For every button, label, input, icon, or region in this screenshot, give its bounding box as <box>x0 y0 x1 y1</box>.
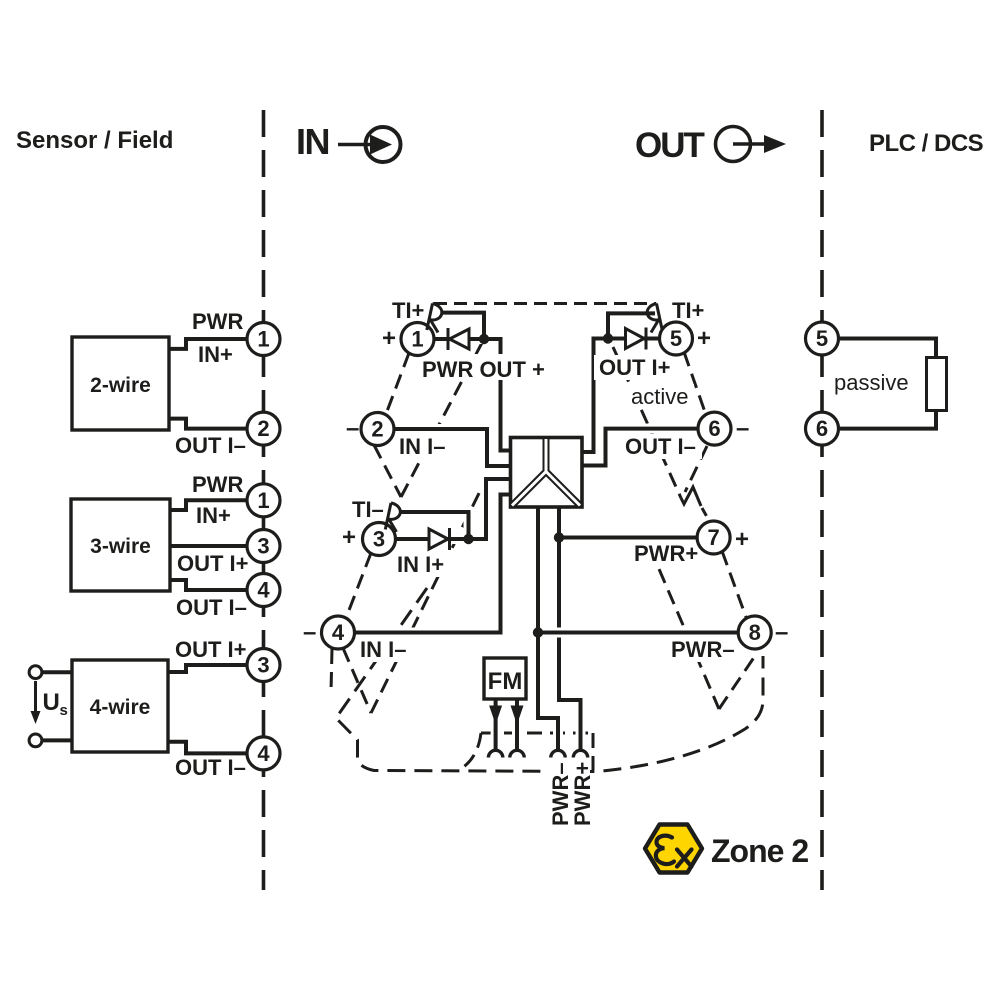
svg-text:TI+: TI+ <box>392 298 424 323</box>
wire TI+ branch left <box>441 313 484 339</box>
svg-text:2-wire: 2-wire <box>90 374 151 397</box>
svg-text:2: 2 <box>371 417 383 442</box>
module outline dash: zigzag to terminal 7 <box>702 508 711 524</box>
wire IN I- terminal 4 to isolator <box>355 495 511 633</box>
svg-text:7: 7 <box>707 525 719 550</box>
terminal 4 sensor column (4-wire) <box>247 737 280 770</box>
node 3 junction dot <box>463 534 473 544</box>
Sensor/Field boundary dashed line <box>262 110 266 890</box>
4-wire sensor box <box>72 660 168 752</box>
svg-text:5: 5 <box>816 326 828 351</box>
IN arrow symbol <box>338 127 401 162</box>
svg-text:s: s <box>60 702 68 719</box>
module outline dash: bottom notch to node 3 junction <box>371 479 486 713</box>
svg-text:Zone 2: Zone 2 <box>711 833 808 869</box>
module terminal 7 <box>697 521 730 554</box>
svg-text:1: 1 <box>411 327 423 352</box>
Us supply arrow <box>34 681 37 713</box>
svg-text:6: 6 <box>816 416 828 441</box>
wire PWR- rail repaint at junction <box>536 600 540 718</box>
svg-text:3: 3 <box>257 534 269 559</box>
svg-text:3: 3 <box>373 527 385 552</box>
terminal 4 sensor column (3-wire) <box>247 574 280 607</box>
wire TI+ branch right <box>608 313 655 338</box>
terminal 1 sensor column (3-wire) <box>247 484 280 517</box>
diode D5 at node 5 (points right) <box>626 329 645 349</box>
svg-text:PLC / DCS: PLC / DCS <box>869 130 984 157</box>
PWR- junction dot <box>533 627 543 637</box>
TI+ test socket left <box>427 304 433 331</box>
svg-text:–: – <box>775 619 788 646</box>
isolation amplifier block <box>511 438 583 508</box>
svg-text:2: 2 <box>257 416 269 441</box>
TI+ test socket right <box>657 304 663 331</box>
module outline dash: terminal 4 to bottom notch <box>343 648 371 713</box>
module outline zigzag notch above terminal 7 <box>681 487 701 506</box>
wire node1 PWR OUT+ to isolator <box>434 339 511 451</box>
svg-text:U: U <box>43 689 60 716</box>
wire passive load loop PLC side <box>839 339 937 429</box>
svg-text:4: 4 <box>332 620 345 645</box>
polarity signs <box>303 325 788 646</box>
module outline dash: terminal 3 to terminal 4 <box>346 553 371 618</box>
svg-text:OUT I–: OUT I– <box>175 433 246 458</box>
svg-text:+: + <box>697 325 711 352</box>
svg-text:4: 4 <box>257 578 270 603</box>
FM box <box>484 658 526 699</box>
node 1 junction dot <box>479 334 489 344</box>
wire OUT I+ node5 to isolator <box>582 339 660 453</box>
svg-text:IN+: IN+ <box>198 342 233 367</box>
svg-text:TI–: TI– <box>352 497 384 522</box>
wire IN I- terminal 2 to isolator <box>394 429 511 466</box>
FM arrowhead right <box>511 706 524 725</box>
diode D3 at node 3 (points right) <box>429 529 448 549</box>
PLC terminal 6 <box>806 412 839 445</box>
wire OUT I- terminal 6 to isolator <box>582 429 698 466</box>
svg-text:PWR OUT +: PWR OUT + <box>422 357 545 382</box>
svg-text:–: – <box>736 415 749 442</box>
svg-text:+: + <box>342 524 356 551</box>
TI- test socket <box>385 503 391 530</box>
module terminal 4 <box>322 616 355 649</box>
4-wire source terminal top <box>29 666 42 679</box>
FM arrowhead left <box>489 706 502 725</box>
svg-text:4-wire: 4-wire <box>90 696 151 719</box>
svg-text:+: + <box>735 526 749 553</box>
terminal 3 sensor column (4-wire) <box>247 649 280 682</box>
svg-text:–: – <box>346 415 359 442</box>
svg-text:OUT I–: OUT I– <box>625 434 696 459</box>
wire 3-wire box to terminal 4 <box>170 580 248 590</box>
svg-text:PWR+: PWR+ <box>634 541 698 566</box>
3-wire sensor box <box>71 499 170 591</box>
module outline dash: terminal 6 down to zigzag <box>685 446 707 492</box>
module outline dash: notch to node 1 junction <box>401 339 484 497</box>
connector FM right <box>510 750 524 757</box>
wire PWR+ power rail down to connector <box>559 507 581 751</box>
svg-text:OUT I+: OUT I+ <box>599 355 671 380</box>
terminal numbers <box>257 326 828 766</box>
resistor passive load <box>927 358 947 411</box>
svg-text:IN: IN <box>296 121 329 162</box>
wire 4-wire box to terminal 4 <box>168 742 248 754</box>
module outline dash: terminal 1 to terminal 2 <box>386 353 409 414</box>
module terminal 6 <box>698 412 731 445</box>
wire 4-wire source bottom <box>42 738 72 742</box>
diode D1 at node 1 (points left) <box>447 328 450 350</box>
svg-text:IN I+: IN I+ <box>397 552 444 577</box>
svg-text:6: 6 <box>708 416 720 441</box>
svg-text:OUT I+: OUT I+ <box>177 551 249 576</box>
module terminal 3 <box>363 523 396 556</box>
wire FM right output <box>515 699 519 751</box>
svg-text:PWR: PWR <box>192 472 243 497</box>
module outline dash: power connector box top <box>481 732 593 735</box>
svg-text:OUT I+: OUT I+ <box>175 637 247 662</box>
module outline dash: terminal 4 down to corner <box>331 649 332 692</box>
4-wire source terminal bottom <box>29 734 42 747</box>
svg-text:1: 1 <box>257 488 269 513</box>
OUT arrow symbol <box>716 127 787 162</box>
test loop dashed wire TI+ to TI+ <box>434 302 656 305</box>
module outline dash: terminal 7 to terminal 8 <box>722 551 746 617</box>
svg-text:OUT I–: OUT I– <box>175 755 246 780</box>
svg-text:+: + <box>382 325 396 352</box>
wire PWR- power rail down to connector <box>538 507 558 751</box>
connector PWR+ <box>573 750 587 757</box>
svg-text:PWR–: PWR– <box>671 637 735 662</box>
svg-text:IN I–: IN I– <box>360 637 406 662</box>
svg-text:IN+: IN+ <box>196 503 231 528</box>
svg-text:3: 3 <box>257 653 269 678</box>
wire 4-wire source top <box>42 670 72 674</box>
wire 3-wire box to terminal 3 <box>170 544 248 548</box>
terminal 1 sensor column <box>247 323 280 356</box>
svg-text:PWR+: PWR+ <box>570 762 595 826</box>
module outline dash: connector box left drop <box>462 733 481 768</box>
wire IN I+ terminal 3 to isolator <box>396 479 511 539</box>
wire TI- branch <box>400 512 469 539</box>
svg-text:FM: FM <box>488 668 523 695</box>
module terminal 5 <box>660 322 693 355</box>
svg-text:IN I–: IN I– <box>399 434 445 459</box>
svg-text:5: 5 <box>670 326 682 351</box>
wire FM left output <box>494 699 498 751</box>
node 5 junction dot <box>603 333 613 343</box>
svg-text:active: active <box>631 384 688 409</box>
connector FM left <box>488 750 502 757</box>
PLC/DCS boundary dashed line <box>820 110 824 890</box>
svg-text:3-wire: 3-wire <box>90 535 151 558</box>
module terminal 8 <box>738 616 771 649</box>
module outline dash: bottom notch up to terminal 8 <box>719 653 757 709</box>
PWR+ junction dot <box>554 532 564 542</box>
wire PWR- terminal 8 (halo break over PWR+ rail) <box>538 628 739 638</box>
svg-text:1: 1 <box>257 327 269 352</box>
wire PWR+ terminal 7 <box>559 536 698 540</box>
svg-text:PWR: PWR <box>192 309 243 334</box>
2-wire sensor box <box>72 337 169 430</box>
Ex hexagon logo <box>645 825 702 873</box>
svg-text:TI+: TI+ <box>672 298 704 323</box>
svg-text:4: 4 <box>257 741 270 766</box>
wire 2-wire box to terminal 2 <box>169 419 248 429</box>
module outline dash: terminal 5 to terminal 6 <box>684 352 706 415</box>
wire 4-wire box to terminal 3 <box>168 665 248 672</box>
module outline dash: left corner diagonal and bottom edge <box>336 588 763 772</box>
svg-text:passive: passive <box>834 370 909 395</box>
svg-text:–: – <box>303 619 316 646</box>
wire 3-wire box to terminal 1 <box>170 500 248 510</box>
module outline dash: connector box right drop <box>592 733 595 770</box>
connector PWR- <box>551 750 565 757</box>
module outline dash: terminal 2 to notch above TI- <box>374 445 401 497</box>
module outline dash: node 5 junction down through active <box>613 347 681 498</box>
terminal 2 sensor column <box>247 412 280 445</box>
terminal 3 sensor column (3-wire) <box>247 530 280 563</box>
svg-text:OUT I–: OUT I– <box>176 595 247 620</box>
wire 2-wire box to terminal 1 <box>169 339 248 349</box>
svg-text:8: 8 <box>749 620 761 645</box>
svg-text:Sensor / Field: Sensor / Field <box>16 127 173 154</box>
svg-text:OUT: OUT <box>635 126 705 165</box>
module outline dash: PWR+ label down to bottom notch <box>650 548 719 709</box>
halo wires <box>169 339 248 349</box>
module terminal 2 <box>361 413 394 446</box>
module terminal 1 <box>401 323 434 356</box>
PLC terminal 5 <box>806 322 839 355</box>
